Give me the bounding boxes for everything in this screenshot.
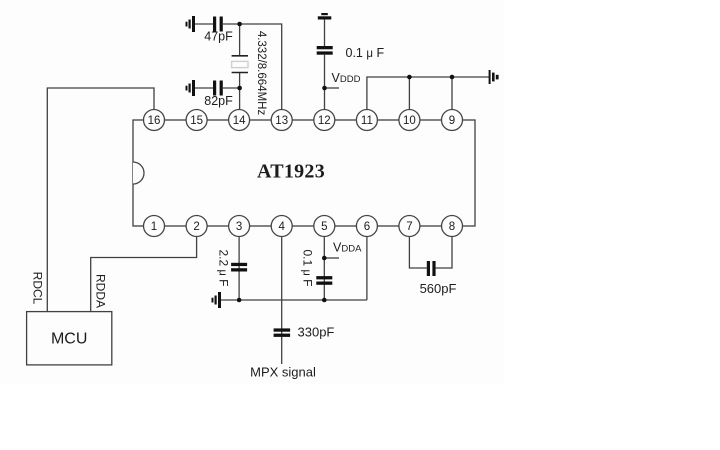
- IC U1 body outline: [133, 120, 475, 226]
- svg-text:82pF: 82pF: [204, 94, 233, 108]
- pin 3: [229, 216, 250, 237]
- pin numbers bottom row: [151, 221, 455, 233]
- wire gnd to 82pF: [195, 87, 213, 89]
- pin 16: [144, 110, 165, 131]
- capacitor C4 2.2uF: [231, 263, 247, 272]
- capacitor 47pF: [213, 17, 223, 32]
- svg-text:11: 11: [361, 115, 373, 127]
- wire 82pF to junction: [223, 87, 240, 89]
- pin 6: [356, 216, 377, 237]
- capacitor 82pF: [213, 81, 223, 96]
- pin 2: [186, 216, 207, 237]
- node junction VDDA: [322, 256, 327, 261]
- svg-text:MCU: MCU: [51, 331, 87, 348]
- pin 9: [442, 110, 463, 131]
- svg-text:RDDA: RDDA: [93, 274, 107, 308]
- ground G2 (left of 82pF): [186, 80, 196, 96]
- schematic background area: [0, 0, 504, 384]
- svg-text:VDDD: VDDD: [332, 71, 361, 85]
- pin 11: [356, 110, 377, 131]
- svg-text:3: 3: [236, 221, 242, 233]
- svg-text:2.2 μ F: 2.2 μ F: [217, 249, 231, 286]
- svg-text:4.332/8.664MHz: 4.332/8.664MHz: [255, 31, 267, 116]
- wire 47pF to pin13 corner: [223, 24, 282, 110]
- svg-text:0.1 μ F: 0.1 μ F: [301, 249, 315, 286]
- node junction 47pF/crystal: [237, 22, 242, 27]
- svg-text:330pF: 330pF: [298, 325, 335, 340]
- wire pin10 to gnd bus: [408, 77, 410, 110]
- wire pin6 down to ground bus: [366, 236, 368, 300]
- svg-text:14: 14: [233, 115, 246, 127]
- MCU box: [27, 312, 112, 365]
- ground G1 (left of 47pF): [186, 16, 196, 32]
- pin 13: [271, 110, 292, 131]
- svg-text:47pF: 47pF: [204, 30, 233, 44]
- svg-text:9: 9: [449, 115, 455, 127]
- node junction bus/pin9: [450, 75, 455, 80]
- pin circles: [144, 110, 463, 237]
- pin 12: [314, 110, 335, 131]
- wire 0.1uF cap to pin12: [324, 55, 326, 110]
- pin 8: [442, 216, 463, 237]
- wire pin5 through 0.1uF to bus: [323, 236, 325, 300]
- wire pin3 through 2.2uF to bus: [238, 236, 240, 300]
- ground G4 (right of pin bus): [489, 70, 499, 84]
- VDDD label tick: [325, 87, 340, 89]
- wire pin11 to gnd bus: [367, 77, 489, 110]
- wire pin16 to RDCL net: [47, 88, 154, 312]
- pin 15: [186, 110, 207, 131]
- node junction bus/pin10: [407, 75, 412, 80]
- svg-text:AT1923: AT1923: [257, 161, 325, 183]
- pin 10: [399, 110, 420, 131]
- IC notch: [133, 162, 144, 184]
- pin 1: [144, 216, 165, 237]
- svg-text:0.1 μ F: 0.1 μ F: [346, 46, 385, 60]
- wire gnd to 47pF: [195, 23, 213, 25]
- svg-text:15: 15: [190, 115, 203, 127]
- pin 14: [229, 110, 250, 131]
- pin numbers top row: [148, 115, 456, 127]
- capacitor C3 0.1uF (digital): [317, 46, 333, 55]
- pin 7: [399, 216, 420, 237]
- pin 5: [314, 216, 335, 237]
- svg-text:5: 5: [321, 221, 327, 233]
- svg-text:4: 4: [278, 221, 285, 233]
- svg-text:7: 7: [406, 221, 412, 233]
- capacitor C5 0.1uF (analog): [316, 276, 332, 285]
- svg-text:MPX signal: MPX signal: [250, 365, 316, 380]
- wire 560pF to pin8: [436, 236, 452, 268]
- svg-text:560pF: 560pF: [420, 281, 457, 296]
- wire pin4 to MPX through 330pF: [281, 236, 283, 364]
- svg-text:VDDA: VDDA: [333, 241, 362, 255]
- capacitor C6 330pF: [274, 328, 291, 337]
- svg-text:6: 6: [364, 221, 370, 233]
- wire pin7 to 560pF: [409, 236, 426, 268]
- svg-text:8: 8: [449, 221, 455, 233]
- node junction 82pF/pin14: [237, 86, 242, 91]
- capacitor C7 560pF: [427, 261, 436, 276]
- wire gnd to analog ground bus: [221, 299, 367, 301]
- node junction bus/pin3: [237, 298, 242, 303]
- VDDA label tick: [324, 257, 339, 259]
- wire pin2 to RDDA net: [91, 236, 197, 312]
- wire junction to crystal top: [239, 24, 241, 56]
- node junction bus/pin5: [322, 298, 327, 303]
- wire crystal bottom to pin14: [239, 72, 241, 110]
- ground G5 (bottom-left of bus): [212, 292, 222, 308]
- wire pin9 to gnd bus: [451, 77, 453, 110]
- svg-text:2: 2: [193, 221, 199, 233]
- wire top gnd to 0.1uF cap: [324, 20, 326, 47]
- svg-text:1: 1: [151, 221, 157, 233]
- pin 4: [271, 216, 292, 237]
- node junction VDDD: [322, 86, 327, 91]
- svg-text:16: 16: [148, 115, 161, 127]
- svg-text:RDCL: RDCL: [30, 272, 44, 305]
- svg-text:10: 10: [403, 115, 416, 127]
- svg-text:12: 12: [318, 115, 331, 127]
- crystal Y1 4.332/8.664MHz: [232, 56, 248, 73]
- svg-text:13: 13: [275, 115, 288, 127]
- ground G3 (top, above 0.1uF): [318, 13, 332, 20]
